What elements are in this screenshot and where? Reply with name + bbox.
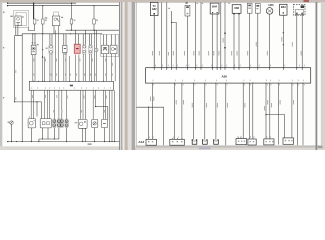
wire track2 [161,2,163,68]
fuse S2 label [45,20,47,21]
connector C3 marks above [237,136,240,137]
wire track3 [166,2,168,68]
M1 label mark a [32,42,33,43]
relay K2 coil [54,18,57,21]
wires bottom comps to ground rail [31,128,104,142]
B63 wire junction dot upper [283,32,284,33]
S6 inner marks [256,5,259,7]
H63 inner cross [268,9,272,12]
B64 pin dots [212,12,213,13]
motor H63 circle [266,8,273,15]
wires: drops from h-lines into mid components [33,30,115,48]
wire with elbow x171.7 [172,11,177,68]
G3 wire T-bar [215,140,217,142]
jog wire horizontal y101.9 [15,101,42,103]
M1 label smudge [37,44,39,45]
C1 pin ticks [148,138,150,139]
junction dot rail1 x71.5 [71,3,72,4]
jog wire horizontal y106.5 [96,106,108,108]
scan left band [0,2,2,150]
mid connector X6 [89,45,92,54]
collector drop to rail [38,139,40,142]
ground rail label [88,143,92,145]
T1 pin mark [153,13,155,15]
mid connector X2 (two circles) [49,45,53,54]
relay carrier inner outline [16,13,26,26]
C1 pin number smudges [148,137,151,138]
M8 symbol [103,49,107,51]
jog junction dot right [265,114,266,115]
connector C5 [264,139,274,145]
fuse S1 label [37,20,39,21]
X88 pin feet [233,13,235,14]
sensor B63 box [280,4,287,15]
footer page number smudge [318,146,323,148]
thick feed wire from rail1 to fuse S1 [33,3,35,19]
bottom comp N2 wide box [40,119,51,128]
C4 pin stub [252,138,254,139]
wire gauge/colour labels (rotated smudges) [152,37,302,56]
jog wire from page edge y107.2 [136,107,163,145]
G2 inner mark [186,6,189,8]
fuse S4 wire from rail2 [93,6,95,19]
wire H63 down [269,14,271,67]
relay K1 pin label smudge [22,16,24,17]
relay K1 body [15,16,21,26]
W1 tail wire to ground rail [11,124,13,141]
jog drop wire x37 [36,102,38,117]
fuse S1 [33,19,36,24]
wire X88 pin2 [238,13,240,67]
wire track 201 [200,2,202,68]
relay K2 body [52,16,59,26]
left margin smudge c [3,97,4,98]
svg-text:A26: A26 [221,74,227,78]
ground rail junction dots [11,141,115,142]
C2 pin ticks [172,138,174,139]
wire label smudges below bus [16,95,108,113]
N1 circle [29,121,33,125]
wire fuse S4 down [93,24,95,30]
rail 1 terminal dot [7,3,8,4]
relay K2 label smudge right [61,17,63,18]
ECU A26 box [146,68,311,83]
enclosure box around M8 M9 [101,35,119,57]
sensor B64 box [210,3,219,14]
wire B63 down [282,15,284,67]
M5 inner box [295,10,304,15]
h2 junction dot at 70.3 [70,33,71,34]
W1 slash [10,121,13,124]
jog junction dot at 37 [36,101,37,102]
svg-text:B63: B63 [281,5,286,9]
relay K1 label smudge [10,16,13,17]
wires: bus B5 down to bottom row [31,90,115,141]
B1 inner dot [96,50,97,51]
jog wire right side y114.6 [266,115,285,138]
jog drop wire x107.8 [107,107,109,120]
G2 wire T-bar [204,140,206,142]
bottom conn P1 (stacked sockets) [53,119,56,128]
N1 mark [34,120,35,121]
C3 inner mark [238,141,239,142]
wire relay K1 down [15,26,17,36]
corner wire route to left column [15,34,23,102]
wire fuse S3 down [71,24,73,30]
relay K1 contact marks [16,22,20,24]
junction dot on wire 42.6 [42,49,43,50]
fuse holder T1/A82 box [150,2,158,15]
right page bottom edge shading [136,145,321,147]
N5 dash [103,122,106,124]
left margin smudge a [3,12,5,14]
ECU top edge junction dots [154,67,303,68]
connector C6 [283,138,294,144]
M1 symbol circle [32,47,35,50]
M3 pins below (socket circles) [63,52,65,54]
power rail 30 (top rail 1) [7,2,76,4]
jog drop wire x41.6 [41,102,43,119]
wire K2 left pin down [53,26,55,34]
M9 inner dot [115,48,116,49]
h1 junction dot at 71.5 [71,30,72,31]
X6 circle top [89,46,92,49]
bottom conn P3 [60,119,63,128]
distribution wire h1 [66,29,119,31]
G2 corner nubs [202,139,203,140]
ECU bottom edge pin dots [152,83,304,84]
wires ECU bottom to connectors [152,83,303,145]
N3 circle [79,122,83,126]
fuse S3 wire from rail2 [71,3,73,19]
tick label above wire 195.7 [197,3,198,4]
fuse S2 wire from rail2 [42,6,44,19]
connector C3 [236,139,247,145]
wire M5 pin2 [301,15,303,67]
comp S6 box [255,4,260,14]
pin number smudges below ECU bottom edge [153,84,304,85]
X2 circle top [50,45,53,48]
jog wire left: junction dot [14,101,15,102]
wire labels below ECU [150,97,294,111]
B63 wire junction dot lower [283,44,284,45]
connector C4 [248,139,256,145]
relay K2 label smudge left [45,17,47,18]
C2 inner marks [172,141,173,142]
G1 wire T-bar [193,140,195,142]
page gap / book spine [119,2,120,150]
highlighted component M4 (selected, red) [74,44,80,53]
scan bottom band [0,146,325,150]
C4 inner marks [250,141,251,142]
comp G2 label above [186,2,188,4]
X5 circle bottom [83,50,86,53]
relay K2 contact [57,18,59,22]
bus B5 label [70,85,73,87]
conn X88 marks above left [228,3,230,4]
C6 inner marks [285,140,286,141]
N2 inner square left [42,122,45,125]
N4 circle slash [93,122,96,125]
S5 inner marks [248,5,251,7]
dashed actuator M5 box [293,4,305,15]
scan top band red mark [304,0,310,2]
junction dot rail2 x94 [93,5,94,6]
bottom comp N3 box [78,119,87,128]
G3 corner nubs [213,139,214,140]
svg-text:X88: X88 [234,6,239,10]
wire G2 down [187,16,189,68]
comp G2 box [185,5,190,16]
C3 pin stubs [237,137,239,138]
small label right of T1 [168,8,170,9]
pin number smudges above ECU [155,65,304,67]
M4 pink pin left [75,53,77,55]
ECU top pin stubs [154,68,302,70]
bus top junction dots [33,81,104,82]
C1 inner marks [148,141,149,142]
M1 label mark b [34,42,35,43]
X2 label smudge [46,48,48,49]
wire h2 left drop [21,34,23,142]
svg-text:H63: H63 [269,3,274,7]
jog drop wire x148.7 [148,107,150,138]
fuse S3 [70,19,73,24]
N3 mark [84,121,86,123]
mid component M9 box [110,45,117,54]
wire fuse S2 down [42,24,44,34]
bus bar B5 [29,81,113,90]
wire B64 pin2 [216,14,218,68]
svg-text:B64: B64 [212,4,217,8]
ground lug G1 [192,140,197,145]
G1 corner nubs [192,139,193,140]
svg-text:A13: A13 [138,140,144,144]
U-shaped wire route under fuse S1 [28,24,34,30]
scan right band [321,2,325,150]
mid connector X5 [83,45,86,54]
wire track 220.8 [220,2,222,68]
power rail 15 (top rail 2) [7,5,119,7]
dash label left of N3 [75,121,78,124]
M1 feed dot right [34,33,35,34]
jog junction dot [148,107,149,108]
C2 pin number smudges [172,137,175,138]
comp S5 box [247,3,252,13]
N1 pin labels above [28,116,31,118]
M5 pin marks [296,13,298,15]
wire M5 pin1 [296,15,298,67]
wire T1 down to ECU [153,16,155,68]
arrow mark on wire 42.6 [42,56,44,58]
rail 2 terminal dot [7,5,8,6]
fuse S2 [42,19,45,24]
mid component M3 box [63,45,67,52]
connector C1 [146,139,156,145]
ground lug G3 [214,140,219,145]
wire track 195 [195,2,197,68]
h1 junction dot at 94 [93,30,94,31]
mid sensor circle B1 [95,48,98,51]
connector C2 [170,139,185,145]
M4 pink pin right [78,53,80,55]
bottom comp N5 box [101,119,107,127]
page background left [0,0,325,150]
conn X88 box [232,5,241,14]
ground rail [7,141,119,143]
relay K1 coil circle [17,17,20,20]
X2 circle bottom [50,50,53,53]
wire X88 pin1 [233,13,235,67]
X6 circle bottom [89,50,92,53]
ground lug G2 [203,140,208,145]
bottom conn P4 [65,119,68,128]
B63 pin mark [283,12,284,13]
right page border line [316,2,318,150]
left margin smudge b [3,47,4,48]
wires: mid row down to bus B5 [33,26,115,82]
ECU bottom pin number smudges (inside box) [153,80,304,82]
M4 dash symbol [76,48,79,49]
M9 symbol circle [111,48,114,51]
bottom symbol W1 (circle with slash) [10,121,14,125]
collector dots [42,138,43,139]
wire S6 down [257,13,259,67]
junction dot rail2 x42.8 [42,5,43,6]
footer lavender mark [199,147,211,150]
fuse S4 label [96,20,98,21]
connector C5 dots above [266,136,269,137]
bottom comp N1 box [28,119,35,128]
distribution wire h2 [22,33,102,35]
fuse S3 label [74,20,76,21]
M3 dash symbol [64,48,66,50]
svg-text:A82: A82 [152,7,157,11]
wire B64 pin1 [212,14,214,68]
wire track 225 with inline connector arrows [224,2,226,68]
jog wire right: junction dot [95,106,96,107]
elbow junction dot [171,22,172,23]
M8 small circle [103,47,106,49]
junction dot rail1 x33.5 [33,3,34,4]
wire label smudge row y59 [16,59,113,74]
relay K2 bracket outline [54,12,59,16]
wire 171.7 continues down [171,22,173,67]
inline connector arrow lower [224,47,226,49]
M1 feed dot left [32,33,33,34]
mid component M1 box [31,45,36,54]
bottom conn P2 [57,119,60,128]
wire S5 down [249,13,251,67]
mid component M8 box [102,45,109,54]
N2 inner square right [47,122,50,125]
ground rail terminal dot [7,141,8,142]
tick label above wire 201 [202,3,203,4]
wire relay K1 pin2 down [17,26,19,36]
fuse S4 [93,19,96,24]
page top edge shadow [2,1,321,4]
bus internal pin numbers bottom row [32,87,111,88]
C4 marks above [249,136,252,137]
M1 symbol bars [32,51,35,53]
X5 circle top [83,46,86,49]
M5 label [301,5,305,8]
right page left border line [135,2,137,146]
scan top band [0,0,325,2]
G2 lower mark [187,13,189,15]
collector wire y139 [39,138,59,140]
W1 label smudge [8,122,10,123]
pin number smudge row above bus [34,74,113,76]
relay carrier outline (top-left) [14,11,29,28]
bottom comp N4 box [92,119,98,127]
h2 junction dot at 42.8 [42,33,43,34]
inline connector arrow upper [224,32,226,34]
C5 inner marks [266,141,267,142]
